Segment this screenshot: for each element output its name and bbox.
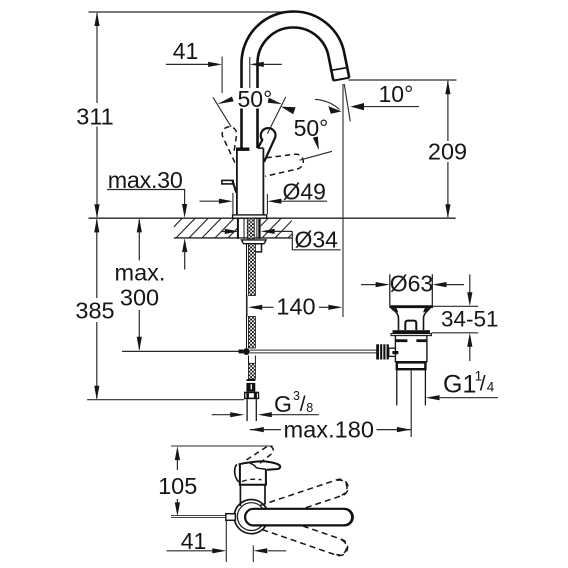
dimension 41 lines [166,63,282,65]
lever front curl (left) [235,465,239,483]
dimension 105 arrows [175,446,180,516]
max.30 upper arrow (down) [182,204,187,218]
svg-text:G1: G1 [443,371,476,399]
svg-text:209: 209 [428,138,467,164]
nut white windows [249,393,254,397]
pull-rod knob protrusion on body left [222,180,233,184]
deck bottom line [174,237,292,239]
spout inner curve [258,27,334,148]
dimension diam49 arrows [219,199,282,204]
dimension 41 extension line (lever tip) [225,521,227,563]
spout end face [333,78,349,81]
shank hole right wall [258,218,260,238]
dimension diam63 lines [361,284,464,286]
shank hole left wall [237,218,239,238]
dimension 41 lines (bottom view) [167,550,287,552]
svg-text:Ø34: Ø34 [295,227,339,253]
left 50-deg left arrowhead [217,97,233,105]
left 50-deg right arrowhead [268,98,283,105]
faucet axis extension line [249,57,251,88]
svg-text:/: / [480,373,486,396]
svg-text:Ø63: Ø63 [390,271,433,297]
pull rod (plan) [171,516,226,518]
svg-text:max.: max. [115,260,166,286]
supply nut black [244,392,259,400]
svg-text:4: 4 [487,380,495,395]
dimension 385 vertical line [96,220,98,399]
svg-text:41: 41 [173,38,199,64]
knurled adjuster knob [376,344,389,359]
waste taper left side [392,308,398,330]
flexible hose segment 2 (checkered) [249,317,256,349]
pop-up rod right section (double line) [250,350,377,353]
waste body bayonet marks [395,339,407,342]
dimension 385 arrows [94,218,99,399]
waste plug side walls [390,274,433,305]
waste plug base thick line [389,305,433,308]
385 bottom extension line [87,399,244,401]
dashed raised lever blade [247,446,274,464]
svg-text:Ø49: Ø49 [283,179,326,205]
10-degree leader line with arrow [364,106,419,108]
faucet base flange [233,215,267,218]
MAIN GROUP [75,11,498,562]
svg-text:105: 105 [158,473,197,499]
lower dashed spout bar [260,513,350,558]
svg-text:311: 311 [76,104,113,130]
dimension 41 arrows [208,62,264,67]
dimension 209 extension line [349,79,457,81]
tailpipe walls [397,370,426,406]
shank inner thin lines [244,218,257,238]
swivel inner circle [237,503,265,531]
horizontal lever axis line [300,151,333,160]
waste taper right foot [423,308,431,312]
hidden dome dashed arc in box [242,479,262,481]
dimension max.180 lines [250,429,411,431]
dimension 140 arrows [248,305,342,310]
dimension 140 extension line through hose gap [246,296,248,317]
waste flange (black bar) [393,330,430,333]
pull rod knob [226,514,236,521]
dimension 209 vertical line [447,81,449,217]
dimension max.300 vertical line [138,220,140,350]
left 50-deg ray (left lever axis extended) [213,97,231,127]
threaded shank (checkered) [247,218,254,238]
spout aerator joint line [332,67,348,70]
svg-text:max.180: max.180 [284,416,375,442]
dimension 41 axis extension line [252,545,254,562]
max.30 lower arrow (up) [182,238,187,252]
svg-text:140: 140 [276,293,315,319]
stem tick [392,351,398,354]
faucet body top right edge [258,147,264,149]
svg-text:385: 385 [75,298,114,324]
10-degree arc with arrow [315,99,340,109]
adjuster stem [389,348,396,356]
dimension 105 vertical line [176,460,178,503]
svg-text:10°: 10° [379,81,414,107]
tailpipe nut [397,362,426,369]
lever blade scoop curve [250,463,266,469]
waste body walls [395,336,427,362]
below-deck washer [242,240,267,244]
pop-up rod left section [122,350,243,352]
svg-text:41: 41 [181,528,207,554]
dimension G3/8 arrows [230,412,272,417]
waste pull knob [405,321,416,330]
dimension 311 arrows [94,12,99,218]
svg-text:300: 300 [120,285,159,311]
horizontal dashed lever [265,154,303,176]
dimension max.180 arrows [250,427,411,432]
left 50-deg right ray (solid lever axis extended) [267,97,285,134]
flexible hose segment 1 (checkered) [249,244,256,296]
bottom view top extension line [171,445,273,447]
hose sleeve below junction [249,356,256,364]
dimension 34-51 arrow lines [469,274,471,361]
svg-text:50°: 50° [294,115,329,141]
hose left outline [246,244,248,349]
svg-text:8: 8 [306,401,313,415]
dimension max.300 arrows [137,218,142,350]
neck walls [240,485,265,506]
svg-text:50°: 50° [238,86,273,112]
body box [239,464,267,485]
right 50-deg upper arrowhead [281,107,296,115]
svg-text:34-51: 34-51 [441,307,499,332]
protrusion support diagonal [233,181,237,193]
deck top line [89,217,456,219]
10-degree tilted reference line [344,84,350,122]
waste flange rim [391,334,431,336]
small tick on rod [239,350,244,354]
dimension 34-51 arrows [467,292,472,347]
plumb reference line from outlet [342,84,344,317]
flexible hose segment 3 (checkered) [249,363,256,379]
dimension G1 1/4 arrow [426,395,440,400]
dimension 209 arrows [445,80,450,218]
svg-text:/: / [300,393,306,416]
waste taper left foot [390,308,398,312]
dimension 311 vertical line [96,13,98,217]
dimension diam34 arrows [225,229,275,234]
waste body bottom edge [395,361,427,363]
svg-text:G: G [274,391,292,417]
hose fitting black block [246,383,255,392]
spout outer curve [242,11,350,148]
upper dashed spout bar [260,477,350,521]
fitting white slit [251,384,252,389]
hose end black band [247,379,256,381]
dimension diam63 arrows [376,282,447,287]
solid lever [258,128,275,162]
rod junction dot [243,348,250,355]
swivel outer circle [234,499,268,533]
dimension 140 lines [262,306,329,308]
dimension 41 left extension line [221,57,223,93]
dimension 34-51 extension lines [432,306,479,333]
dimension G1 1/4 line [440,397,498,399]
solid spout bar [245,509,353,526]
dimension diam34 lines [222,231,341,249]
right 50-deg lower arrowhead [313,137,319,151]
left dashed lever [222,127,236,163]
short right tube below washer [256,244,262,252]
waste taper right side [424,308,430,330]
max.30 leader underline [107,190,185,206]
faucet body walls [237,148,264,215]
dimension diam49 extension lines [233,193,268,214]
top extension line [89,11,294,13]
dimension diam49 lines [200,200,328,202]
white mask behind left 50 label [236,88,274,109]
supply tube walls [247,399,256,421]
spout bar end seam [344,509,352,524]
dimension G3/8 lines [212,414,319,416]
tailpipe center line [410,370,412,437]
dimension 41 arrows (bottom view) [212,548,267,553]
deck hatching [162,217,248,239]
solid lever blade [239,461,281,470]
faucet body top-left black tick [236,148,249,151]
